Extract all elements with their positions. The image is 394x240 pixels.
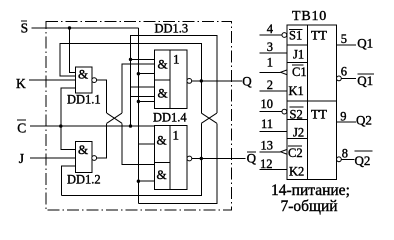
- svg-text:2: 2: [267, 78, 273, 92]
- svg-text:1: 1: [173, 128, 180, 143]
- svg-text:&: &: [157, 167, 167, 182]
- svg-text:Q: Q: [247, 151, 257, 166]
- and-or-not gate DD1.4: [153, 111, 192, 190]
- pin 2 K1: [260, 78, 304, 98]
- junction S wire: [68, 26, 71, 29]
- svg-text:11: 11: [261, 117, 273, 131]
- input K wire: [29, 79, 76, 81]
- wire crossing leg to DD1.3 upper input 2: [122, 64, 155, 113]
- pin 11 J2: [260, 117, 305, 140]
- input S wire: [32, 27, 139, 29]
- svg-text:TT: TT: [311, 28, 327, 43]
- and-or-not gate DD1.3: [155, 22, 192, 109]
- svg-text:K: K: [16, 76, 26, 91]
- wire output Q: [192, 80, 242, 82]
- svg-text:J: J: [19, 151, 24, 166]
- svg-text:1: 1: [173, 52, 180, 67]
- svg-text:C2: C2: [288, 146, 303, 160]
- pin 1 C1: [260, 55, 307, 79]
- svg-text:K2: K2: [289, 164, 304, 178]
- wire stub DD1.3 lower input 2: [131, 96, 155, 98]
- pin 9 Q2: [337, 109, 372, 127]
- svg-text:5: 5: [341, 32, 347, 46]
- wire stub DD1.3 upper input 1: [131, 58, 155, 60]
- wire bottom rail 1: [61, 123, 201, 195]
- pin 6 Q1-bar: [337, 64, 374, 88]
- junction C wire right: [129, 124, 132, 127]
- svg-text:&: &: [78, 142, 88, 157]
- pin 10 S2: [260, 97, 304, 122]
- svg-text:8: 8: [342, 147, 348, 161]
- svg-text:9: 9: [340, 109, 346, 123]
- input C wire: [30, 125, 155, 127]
- svg-text:Q1: Q1: [357, 36, 373, 51]
- wire stub DD1.4 lower input 2: [138, 180, 154, 182]
- svg-text:Q1: Q1: [357, 73, 373, 88]
- svg-text:&: &: [157, 133, 167, 148]
- svg-text:&: &: [158, 85, 168, 100]
- node C label: [17, 120, 26, 136]
- pin 5 Q1: [337, 32, 374, 50]
- svg-text:13: 13: [261, 138, 274, 152]
- svg-text:S1: S1: [289, 29, 302, 43]
- svg-text:1: 1: [267, 55, 273, 69]
- svg-text:12: 12: [260, 157, 273, 171]
- chip outline dash-dot frame DD1: [46, 22, 232, 211]
- svg-text:TT: TT: [311, 107, 327, 122]
- pin 8 Q2-bar: [337, 147, 373, 169]
- svg-text:C1: C1: [292, 65, 307, 79]
- wire DD1.2 output to crossing: [97, 123, 107, 158]
- nand gate DD1.2: [67, 142, 101, 187]
- svg-text:3: 3: [267, 40, 273, 54]
- pin 12 K2: [260, 157, 305, 179]
- wire crossing leg to DD1.4 lower input 1: [122, 123, 155, 164]
- wire bottom rail 2: [138, 123, 217, 203]
- svg-text:&: &: [78, 67, 88, 82]
- pin 4 S1: [260, 22, 303, 43]
- svg-text:J2: J2: [293, 126, 304, 140]
- wire stub DD1.3 lower input 3: [138, 101, 154, 103]
- wire DD1.1 output to crossing: [97, 80, 107, 113]
- svg-text:10: 10: [261, 97, 274, 111]
- svg-text:Q2: Q2: [356, 113, 372, 128]
- crossing X left: [107, 113, 122, 123]
- svg-text:4: 4: [267, 22, 274, 36]
- svg-text:DD1.3: DD1.3: [155, 22, 189, 36]
- wire DD1.1 input 4 vertical: [61, 88, 76, 150]
- svg-text:Q2: Q2: [355, 153, 371, 168]
- svg-text:S2: S2: [290, 108, 303, 122]
- wire C branch up to top rail: [131, 36, 217, 126]
- junction DD1.3 input 1: [129, 58, 132, 61]
- junction Q wire: [200, 79, 203, 82]
- svg-text:J1: J1: [293, 48, 304, 62]
- crossing X right: [201, 113, 217, 123]
- svg-text:14-питание;: 14-питание;: [271, 182, 350, 199]
- node S label: [21, 20, 29, 35]
- node Q-bar label: [247, 151, 257, 166]
- wire S vertical to DD1.3 DD1.4 inputs: [137, 28, 139, 204]
- pin 13 C2: [260, 138, 303, 160]
- wire stub DD1.3 upper input 3: [138, 73, 154, 75]
- svg-text:DD1.4: DD1.4: [153, 111, 187, 125]
- junction DD1.4 lower input 2: [137, 180, 140, 183]
- wire stub DD1.3 lower input 1: [131, 86, 155, 88]
- wire DD1.2 input 3 from bottom rail: [61, 166, 75, 196]
- svg-text:Q: Q: [242, 73, 252, 88]
- svg-text:DD1.1: DD1.1: [67, 93, 101, 107]
- junction C wire left: [59, 124, 62, 127]
- wire stub DD1.4 upper input 2: [138, 143, 154, 145]
- junction Q-bar wire: [200, 157, 203, 160]
- wire output Q-bar: [192, 158, 246, 160]
- svg-text:&: &: [158, 56, 168, 71]
- svg-text:ТВ10: ТВ10: [292, 9, 327, 24]
- svg-text:6: 6: [341, 64, 347, 78]
- input J wire: [30, 157, 76, 159]
- pin 3 J1: [260, 40, 305, 62]
- junction DD1.3 input 3: [137, 72, 140, 75]
- svg-text:S: S: [21, 20, 29, 35]
- svg-text:K1: K1: [289, 84, 304, 98]
- svg-text:DD1.2: DD1.2: [67, 173, 101, 187]
- junction DD1.3 lower input 3: [137, 100, 140, 103]
- chip U1 TB10 body: [287, 25, 337, 179]
- svg-text:7-общий: 7-общий: [281, 198, 338, 215]
- wire Q feedback top rail: [60, 44, 201, 114]
- nand gate DD1.1: [67, 67, 101, 107]
- svg-text:C: C: [17, 121, 26, 136]
- wire S branch to DD1.1 pin: [70, 28, 76, 72]
